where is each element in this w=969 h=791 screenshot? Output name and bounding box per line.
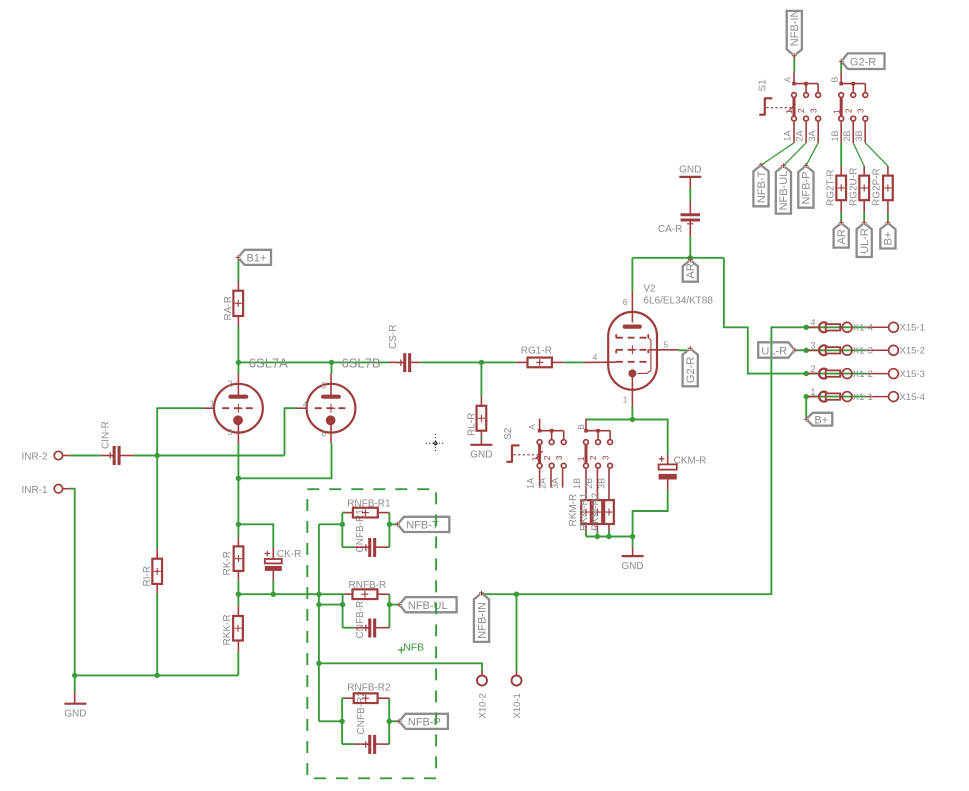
junction net3 left <box>339 719 344 724</box>
svg-text:NFB-IN: NFB-IN <box>789 9 801 46</box>
svg-text:X10-1: X10-1 <box>512 693 523 718</box>
wire G2-R flag top <box>840 61 842 71</box>
flag B+ RG2P <box>880 220 895 248</box>
ground GND RL-R <box>470 445 492 461</box>
pin stubs S1 A <box>793 121 795 143</box>
svg-text:AR: AR <box>836 229 848 244</box>
svg-text:NFB: NFB <box>403 641 424 653</box>
junction X1-1 <box>804 394 809 399</box>
connector pin X1-4 <box>808 322 852 332</box>
wire INR-2 to CIN-R <box>70 455 100 457</box>
junction NFB vertical net2 <box>316 602 321 607</box>
wire net2 bottom <box>343 627 355 629</box>
svg-text:RKM-R2: RKM-R2 <box>591 492 602 531</box>
svg-text:B+: B+ <box>814 414 828 426</box>
wire 6SL7A grid to node <box>157 408 203 455</box>
svg-text:RG2U-R: RG2U-R <box>849 168 860 206</box>
wire X10-1 up <box>516 594 518 671</box>
capacitor CNFB-R2 <box>363 735 375 754</box>
wire GND stub <box>632 537 634 547</box>
svg-text:B1+: B1+ <box>247 253 267 265</box>
svg-text:RKK-R: RKK-R <box>222 614 233 645</box>
junction RK node <box>236 522 241 527</box>
junction RKM-R3 <box>606 534 611 539</box>
triode U1A 6SL7A <box>203 374 263 444</box>
svg-text:B: B <box>830 77 840 83</box>
svg-text:CKM-R: CKM-R <box>674 456 707 467</box>
capacitor CA-R <box>681 215 701 227</box>
junction NFB node RK <box>236 592 241 597</box>
connector pin X15-2 <box>866 349 888 351</box>
wire 6SL7A plate stub <box>237 362 239 373</box>
junction net2 left <box>340 602 345 607</box>
wire CS-R to RG1-R <box>421 361 516 363</box>
svg-text:2: 2 <box>228 379 233 389</box>
junction net2 right <box>387 602 392 607</box>
svg-text:2A: 2A <box>538 478 548 489</box>
junction RI-R bottom <box>155 673 160 678</box>
resistor RG1-R <box>528 358 552 368</box>
wire B1+ to RA-R <box>237 259 239 282</box>
resistor RKM-R1 <box>581 500 591 524</box>
svg-text:X1-2: X1-2 <box>853 369 873 380</box>
svg-text:1: 1 <box>210 398 215 408</box>
wire net X1-2 <box>806 373 866 375</box>
svg-text:AR: AR <box>685 263 697 278</box>
svg-text:RK-R: RK-R <box>222 551 233 575</box>
svg-text:3: 3 <box>554 455 564 460</box>
svg-text:2A: 2A <box>795 130 805 141</box>
wire net3 bottom <box>342 743 354 745</box>
svg-text:2: 2 <box>588 455 598 460</box>
wire GND to CA-R <box>689 188 691 201</box>
svg-text:RG1-R: RG1-R <box>521 345 552 356</box>
connector pin X15-4 <box>866 396 888 398</box>
ground GND RKM <box>621 556 643 572</box>
wire net X1-1 <box>806 396 866 398</box>
switch S2 pole B <box>576 419 612 469</box>
flag NFB-P S1 <box>798 163 813 208</box>
pin stubs S1 B <box>840 121 842 143</box>
svg-text:X10-2: X10-2 <box>477 693 488 718</box>
capacitor CIN-R <box>107 446 119 465</box>
junction ground bus left <box>72 673 77 678</box>
switch S2 pole A <box>530 419 566 469</box>
wire RG1-R pins <box>516 361 528 363</box>
flag G2-R top <box>839 53 885 69</box>
resistor RNFB-R1 <box>353 508 378 518</box>
junction CA-R node <box>688 255 693 260</box>
wire net1 right <box>388 513 390 548</box>
junction net3 right <box>387 719 392 724</box>
svg-text:B: B <box>576 424 586 430</box>
wire RL-R top <box>480 362 482 396</box>
resistor RL-R <box>477 406 487 431</box>
svg-text:6: 6 <box>623 297 628 307</box>
wire 6SL7A cathode down <box>237 443 239 524</box>
wire RG1-R to V2 grid <box>563 361 584 363</box>
svg-text:1A: 1A <box>783 130 793 141</box>
svg-text:CNFB-R: CNFB-R <box>355 601 366 639</box>
svg-text:2: 2 <box>811 364 816 374</box>
wire cathode bridge <box>238 443 331 478</box>
capacitor CK-R <box>265 551 282 571</box>
svg-text:2: 2 <box>796 108 806 113</box>
svg-text:RI-R: RI-R <box>142 566 153 587</box>
svg-text:INR-2: INR-2 <box>22 452 49 463</box>
junction RG1 node <box>479 360 484 365</box>
junction NFB vertical X10 <box>316 661 321 666</box>
wire RI-R to ground bus <box>156 594 158 676</box>
wire V2 screen to G2-R <box>679 349 688 351</box>
svg-text:NFB-T: NFB-T <box>406 520 439 532</box>
pin INR-2 <box>54 451 62 459</box>
svg-text:G2-R: G2-R <box>685 357 697 383</box>
svg-text:S2: S2 <box>503 427 514 440</box>
wire ground bus <box>75 674 239 676</box>
junction RKM-R2 <box>595 534 600 539</box>
wire net1 top left <box>342 512 345 514</box>
wire net1 bottom <box>342 546 354 548</box>
junction RKM gnd <box>630 534 635 539</box>
switch S1 pole A <box>784 72 820 122</box>
svg-text:3: 3 <box>856 108 866 113</box>
svg-text:GND: GND <box>621 561 643 572</box>
svg-text:GND: GND <box>679 165 701 176</box>
wire CIN-R to grid node <box>134 455 285 457</box>
resistor RNFB-R <box>353 589 378 599</box>
svg-text:X1-3: X1-3 <box>853 346 873 357</box>
wire NFB node to RKK-R <box>237 594 239 606</box>
svg-text:RA-R: RA-R <box>223 296 234 320</box>
svg-text:5: 5 <box>321 381 326 391</box>
svg-text:3B: 3B <box>854 130 864 141</box>
wire RKM-R1 stub <box>585 531 587 537</box>
wire net3 top left <box>342 697 345 699</box>
connector pin X15-1 <box>866 326 888 328</box>
junction plate bus A <box>236 360 241 365</box>
pentode V2 <box>584 291 679 406</box>
svg-text:CS-R: CS-R <box>388 325 399 349</box>
wire GND top gap <box>74 689 76 692</box>
wire RL-R pins <box>480 397 482 406</box>
svg-text:S1: S1 <box>758 79 769 92</box>
connector pin X15-3 <box>866 373 888 375</box>
pin stubs S2 A <box>539 469 541 488</box>
svg-text:X1-1: X1-1 <box>853 392 873 403</box>
wire S1-2A to NFB-UL <box>783 143 806 166</box>
wire stub to net3 <box>319 720 342 722</box>
svg-text:CNFB-R1: CNFB-R1 <box>355 509 366 553</box>
junction NFB node CK <box>271 592 276 597</box>
wire RKM bus <box>586 536 633 538</box>
capacitor CNFB-R <box>363 619 375 638</box>
wire net2 left <box>342 594 344 628</box>
wire RA-R pins <box>237 282 239 291</box>
wire UL-R to X1-3 <box>795 349 806 351</box>
svg-text:X1-4: X1-4 <box>853 323 873 334</box>
flag UL-R mid <box>758 342 797 357</box>
pin INR-1 <box>54 485 62 493</box>
flag B+ X1-1 <box>804 413 833 427</box>
wire node to RI-R <box>156 456 158 550</box>
svg-text:1: 1 <box>811 387 816 397</box>
origin crosshair <box>426 434 445 453</box>
connector pin X1-1 <box>808 392 852 402</box>
wire RL-R gnd gap <box>480 436 482 439</box>
resistor RK-R <box>234 546 244 571</box>
svg-text:RKM-R: RKM-R <box>568 494 579 527</box>
resistor RKM-R3 <box>604 500 614 524</box>
svg-text:3B: 3B <box>596 478 606 489</box>
svg-text:RNFB-R1: RNFB-R1 <box>347 498 391 509</box>
svg-text:INR-1: INR-1 <box>22 485 49 496</box>
svg-text:NFB-UL: NFB-UL <box>778 171 790 211</box>
junction net1 right <box>387 522 392 527</box>
wire S1-3A to NFB-P <box>806 143 818 166</box>
svg-text:CK-R: CK-R <box>277 549 301 560</box>
pin X10-1 <box>512 676 522 686</box>
svg-text:V2: V2 <box>643 284 656 295</box>
wire net3 left <box>341 698 343 744</box>
svg-text:CIN-R: CIN-R <box>101 421 112 449</box>
flag AR top <box>683 257 698 281</box>
wire RKK-R to ground bus <box>237 651 239 675</box>
junction X1-3 <box>804 348 809 353</box>
svg-text:1: 1 <box>623 394 628 404</box>
wire node to CK-R <box>238 524 273 547</box>
triode U1B 6SL7B <box>296 374 356 444</box>
svg-text:3: 3 <box>600 455 610 460</box>
svg-text:5: 5 <box>664 339 669 349</box>
junction input node <box>155 453 160 458</box>
resistor RNFB-R2 <box>354 693 378 703</box>
svg-text:RKM-R1: RKM-R1 <box>579 492 590 531</box>
pin X10-2 <box>477 676 487 686</box>
wire S1-2B to RG2U-R <box>853 143 864 166</box>
wire RG2T-R to AR <box>840 213 842 222</box>
wire RKM-R2 stub <box>596 531 598 537</box>
flag NFB-P <box>397 714 448 729</box>
svg-text:6SL7A: 6SL7A <box>249 355 288 370</box>
svg-text:GND: GND <box>64 708 86 719</box>
wire B+ to X1-1 <box>805 397 807 418</box>
junction cathode node <box>236 476 241 481</box>
wire RG2U-R to UL-R <box>863 213 865 222</box>
resistor RG2T-R <box>836 176 846 201</box>
resistor RA-R <box>233 291 243 316</box>
svg-text:4: 4 <box>303 400 308 410</box>
wire net3 right <box>388 698 390 744</box>
svg-text:4: 4 <box>811 318 816 328</box>
flag AR RG2T <box>834 220 849 247</box>
resistor RKK-R <box>233 616 243 641</box>
wire S1-3B to RG2P-R <box>865 143 888 166</box>
ground GND top <box>679 165 701 177</box>
svg-text:3: 3 <box>808 108 818 113</box>
flag G2-R V2 <box>683 346 698 386</box>
svg-text:1B: 1B <box>830 130 840 141</box>
svg-text:X15-4: X15-4 <box>900 392 925 403</box>
svg-text:RNFB-R: RNFB-R <box>349 580 387 591</box>
wire RG2P-R to B+ <box>887 213 889 222</box>
wire NFB-IN run <box>482 327 807 594</box>
junction X10-1 <box>514 592 519 597</box>
ground GND bottom-left <box>64 704 86 720</box>
wire RG2 pins <box>840 166 842 176</box>
svg-text:3: 3 <box>228 427 233 437</box>
wire net2 right <box>388 594 390 628</box>
svg-text:1: 1 <box>576 456 586 461</box>
junction V2 cathode <box>630 417 635 422</box>
svg-text:X15-1: X15-1 <box>900 323 925 334</box>
wire NFB feed <box>238 593 344 595</box>
svg-text:A: A <box>527 424 537 430</box>
svg-text:CA-R: CA-R <box>658 224 682 235</box>
wire V2 cathode <box>631 407 633 420</box>
wire RK-R pins <box>237 537 239 546</box>
wire RNFB-R2 pins <box>345 697 354 699</box>
flag UL-R RG2U <box>857 220 872 257</box>
wire NFB vertical <box>318 524 320 721</box>
wire RNFB-R pins <box>345 593 353 595</box>
svg-text:UL-R: UL-R <box>859 228 871 254</box>
svg-text:RG2T-R: RG2T-R <box>826 169 837 206</box>
wire RKK-R pins <box>237 606 239 616</box>
wire plate to X1-2 <box>724 258 806 374</box>
capacitor CKM-R <box>659 456 677 479</box>
svg-text:UL-R: UL-R <box>761 345 787 357</box>
svg-text:1B: 1B <box>572 478 582 489</box>
wire RKM pins <box>585 469 587 500</box>
svg-text:2: 2 <box>843 108 853 113</box>
flag NFB-T S1 <box>753 163 768 207</box>
wire plate bus 6SL7 <box>238 361 388 363</box>
wire S1-1A to NFB-T <box>761 143 794 165</box>
wire RK-R to NFB node <box>237 580 239 594</box>
svg-text:6L6/EL34/KT88: 6L6/EL34/KT88 <box>643 295 713 306</box>
svg-text:4: 4 <box>593 352 598 362</box>
wire cathode to CKM-R <box>632 420 667 455</box>
wire ground bus to GND <box>74 675 76 691</box>
svg-text:RNFB-R2: RNFB-R2 <box>347 683 391 694</box>
svg-text:B+: B+ <box>883 232 895 246</box>
wire cathode to S2 <box>586 419 632 421</box>
svg-text:1: 1 <box>831 109 841 114</box>
svg-text:RG2P-R: RG2P-R <box>872 168 883 206</box>
junction net1 left <box>340 522 345 527</box>
flag NFB-UL S1 <box>776 163 791 213</box>
wire 6SL7B plate stub <box>331 362 333 373</box>
wire RI-R pins <box>156 549 158 559</box>
resistor RI-R <box>152 559 162 584</box>
svg-text:3: 3 <box>811 341 816 351</box>
svg-text:6: 6 <box>321 429 326 439</box>
wire CA-R node <box>632 257 724 259</box>
svg-text:X15-3: X15-3 <box>900 369 925 380</box>
svg-text:X15-2: X15-2 <box>900 346 925 357</box>
wire stub to net2 <box>319 604 343 606</box>
svg-text:G2-R: G2-R <box>850 56 876 68</box>
switch S2 lever <box>506 445 542 463</box>
resistor RG2P-R <box>883 176 893 201</box>
junction X1-4 <box>804 325 809 330</box>
flag NFB-UL <box>397 597 457 612</box>
wire INR-1 to ground bus <box>70 489 75 676</box>
flag NFB-T <box>395 517 449 532</box>
svg-text:RL-R: RL-R <box>467 413 478 436</box>
flag NFB-IN top <box>787 9 802 58</box>
wire CKM-R to GND node <box>633 490 668 537</box>
connector pin X1-3 <box>808 345 852 355</box>
wire node to RK-R <box>237 524 239 537</box>
svg-text:2B: 2B <box>584 478 594 489</box>
svg-text:2B: 2B <box>842 130 852 141</box>
wire net2 to NFB-UL <box>389 604 399 606</box>
wire CK-R to NFB node <box>272 580 274 594</box>
capacitor CNFB-R1 <box>363 538 375 557</box>
svg-text:2: 2 <box>542 455 552 460</box>
svg-text:NFB-P: NFB-P <box>801 172 813 205</box>
wire RA-R to plate bus <box>237 326 239 362</box>
svg-text:NFB-T: NFB-T <box>756 170 768 203</box>
capacitor CS-R <box>398 353 410 372</box>
flag B1+ <box>236 250 271 265</box>
resistor RG2U-R <box>859 176 869 201</box>
junction plate bus B <box>329 360 334 365</box>
resistor RKM-R2 <box>593 500 603 524</box>
wire net X1-3 <box>806 349 866 351</box>
wire RKM-R3 stub <box>608 531 610 537</box>
flag NFB-IN bottom <box>474 591 489 642</box>
junction NFB vertical main <box>316 592 321 597</box>
wire net1 left <box>341 513 343 548</box>
wire V2 plate <box>631 258 633 291</box>
svg-text:NFB-IN: NFB-IN <box>476 602 488 639</box>
wire RNFB-R1 pins <box>345 512 353 514</box>
svg-text:GND: GND <box>470 450 492 461</box>
svg-text:6SL7B: 6SL7B <box>342 355 381 370</box>
svg-text:1A: 1A <box>526 478 536 489</box>
wire net3 to NFB-P <box>389 720 399 722</box>
wire S1-1B to RG2T-R <box>840 143 842 166</box>
wire node to 6SL7B grid <box>285 408 297 455</box>
svg-text:3A: 3A <box>550 478 560 489</box>
svg-text:1: 1 <box>530 456 540 461</box>
junction X1-2 <box>804 371 809 376</box>
switch S1 pole B <box>831 72 867 122</box>
wire net1 to NFB-T <box>389 523 397 525</box>
wire to X10-2 <box>319 663 482 671</box>
svg-text:A: A <box>782 77 792 83</box>
svg-text:NFB-UL: NFB-UL <box>408 600 448 612</box>
wire stub to net1 <box>319 523 342 525</box>
switch S1 lever <box>759 98 795 116</box>
wire NFB-IN flag top <box>793 56 795 72</box>
connector pin X1-2 <box>808 369 852 379</box>
wire CA-R to node <box>689 236 691 258</box>
wire net X1-4 <box>806 326 866 328</box>
NFB module box <box>307 489 436 778</box>
svg-text:3A: 3A <box>807 130 817 141</box>
